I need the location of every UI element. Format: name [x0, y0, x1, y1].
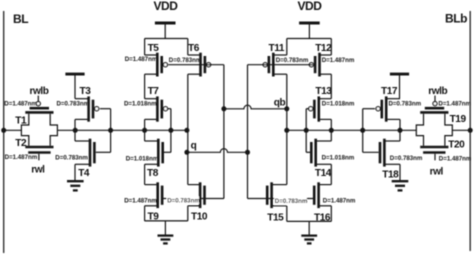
wire transmission-gate body right: [416, 114, 452, 146]
transistor T2 pass NMOS: [25, 147, 53, 153]
transistor T16 NMOS: [314, 182, 331, 208]
svg-text:rwl: rwl: [430, 166, 444, 177]
svg-text:T19: T19: [450, 114, 467, 125]
svg-text:D=1.487nm: D=1.487nm: [4, 101, 37, 108]
wire T14-T16 series link: [330, 164, 332, 184]
wire T3 drain column: [74, 119, 76, 141]
svg-text:BL: BL: [13, 12, 28, 26]
wire T3 gate: [100, 108, 111, 110]
svg-text:D=1.018nm: D=1.018nm: [126, 156, 159, 163]
wire T10 source to ground rail: [187, 206, 189, 221]
value D label T10: [167, 197, 200, 204]
wire T17 drain column: [399, 119, 401, 141]
power VDD bar above T17: [390, 74, 409, 99]
transistor T17 PMOS: [376, 96, 400, 121]
svg-text:T3: T3: [80, 86, 92, 97]
wire left cell input line: [223, 65, 225, 199]
wire T18 source to ground: [399, 164, 401, 180]
wire T6 drain column: [187, 74, 189, 130]
wire T13 drain to bus: [330, 119, 332, 130]
svg-text:T10: T10: [191, 211, 208, 222]
node junction T17-T18 gates: [360, 128, 365, 133]
node junction qb column: [284, 128, 289, 133]
wire node q column: [187, 130, 189, 184]
svg-text:T8: T8: [147, 168, 159, 179]
svg-text:qb: qb: [274, 98, 286, 109]
svg-text:T14: T14: [315, 168, 332, 179]
node junction T3-T4 drains: [73, 128, 78, 133]
ground below T15 T16: [301, 236, 317, 244]
ground below T9 T10: [158, 236, 174, 244]
svg-text:D=0.783nm: D=0.783nm: [276, 57, 309, 64]
node junction BL: [1, 128, 6, 133]
wire node qb column: [286, 109, 288, 185]
svg-text:D=0.783nm: D=0.783nm: [389, 101, 422, 108]
svg-text:T2: T2: [15, 138, 27, 149]
wire VDD left rail: [145, 39, 188, 56]
transistor T1 gate stub rwlb: [37, 96, 39, 102]
transistor T7 PMOS: [145, 96, 168, 121]
svg-text:T15: T15: [267, 213, 284, 224]
svg-text:D=1.018nm: D=1.018nm: [322, 154, 355, 161]
wire T15 source to ground rail: [286, 206, 288, 222]
wire T11 drain column: [286, 74, 288, 109]
wire T15 T16 gate line: [248, 198, 315, 200]
wire T13 T14 gate column: [305, 109, 307, 153]
wire T16 source to ground rail: [330, 206, 332, 222]
wire T3 T4 gate column: [110, 109, 112, 153]
svg-text:T7: T7: [148, 86, 160, 97]
svg-text:T18: T18: [382, 170, 399, 181]
wire T9 T10 gate line: [163, 198, 224, 200]
wire node q bus: [4, 129, 187, 131]
transistor T20 gate stub rwl: [434, 154, 436, 161]
wire BL bit line: [3, 11, 5, 253]
wire T17 gate: [363, 108, 375, 110]
svg-text:D=0.783nm: D=0.783nm: [275, 198, 308, 205]
svg-text:T13: T13: [315, 86, 332, 97]
svg-text:q: q: [191, 141, 197, 152]
svg-text:D=1.487nm: D=1.487nm: [5, 154, 38, 161]
node qb junction: [284, 106, 289, 111]
wire ground rail left cell: [145, 221, 188, 235]
wire T17 T18 gate column: [362, 109, 364, 153]
wire T8 drain to node q bus: [144, 130, 146, 141]
node junction T17-T18 drains: [398, 128, 403, 133]
svg-text:T17: T17: [381, 86, 398, 97]
transistor T1 gate bubble: [36, 102, 40, 106]
svg-text:D=1.018nm: D=1.018nm: [322, 101, 355, 108]
svg-text:T20: T20: [448, 140, 465, 151]
power VDD bar above T3: [65, 74, 84, 99]
wire T8 gate: [164, 151, 171, 153]
wire transmission-gate body left: [21, 114, 57, 146]
transistor T18 NMOS: [380, 139, 400, 167]
wire qb to left cell input: [224, 105, 287, 109]
transistor T14 NMOS: [311, 139, 331, 167]
node q on right input line: [245, 150, 250, 155]
transistor T4 NMOS: [75, 139, 94, 167]
svg-text:D=0.783nm: D=0.783nm: [55, 154, 88, 161]
svg-text:D=1.487nm: D=1.487nm: [125, 56, 158, 63]
svg-text:VDD: VDD: [154, 0, 179, 13]
svg-text:rwl: rwl: [31, 165, 45, 176]
power VDD rail left: [155, 23, 176, 39]
wire node qb bus: [287, 129, 470, 131]
svg-text:D=1.487nm: D=1.487nm: [438, 101, 471, 108]
svg-text:D=0.783nm: D=0.783nm: [169, 57, 202, 64]
transistor T11 PMOS: [263, 53, 287, 77]
svg-text:T12: T12: [315, 43, 332, 54]
value D label T15: [274, 197, 307, 204]
wire T5-T7 series link: [144, 74, 146, 99]
svg-text:D=1.487nm: D=1.487nm: [439, 156, 472, 163]
wire T18 gate: [363, 151, 379, 153]
svg-text:T1: T1: [15, 115, 27, 126]
transistor T6 PMOS: [188, 53, 211, 77]
svg-text:D=1.487nm: D=1.487nm: [124, 197, 157, 204]
svg-text:T5: T5: [148, 43, 160, 54]
ground below T4: [67, 181, 84, 190]
svg-text:BLb: BLb: [445, 11, 467, 25]
node junction T7-T8 gates: [168, 128, 173, 133]
wire T5 T6 gate line: [168, 64, 224, 66]
transistor T9 NMOS: [145, 182, 163, 208]
svg-text:D=0.783nm: D=0.783nm: [390, 155, 423, 162]
svg-text:T4: T4: [78, 168, 90, 179]
wire T4 source to ground: [74, 164, 76, 180]
transistor T19 pass PMOS: [420, 108, 448, 112]
wire BLb bit line: [469, 11, 471, 251]
wire T7 gate: [168, 108, 171, 110]
svg-text:T6: T6: [188, 43, 200, 54]
transistor T19 gate bubble: [433, 102, 437, 106]
wire T7 T8 gate column: [170, 109, 172, 153]
transistor T1 pass PMOS: [25, 108, 53, 112]
wire VDD right rail: [287, 39, 332, 56]
svg-text:rwlb: rwlb: [428, 86, 447, 97]
wire right cell input line: [247, 65, 249, 199]
transistor T2 gate stub rwl: [38, 154, 40, 161]
wire T7 drain to node q bus: [144, 119, 146, 130]
node junction T3-T4 gates: [108, 128, 113, 133]
node qb on left input line: [221, 106, 226, 111]
wire T4 gate: [96, 151, 111, 153]
wire T14 gate: [306, 151, 310, 153]
svg-text:D=0.783nm: D=0.783nm: [167, 197, 200, 204]
transistor T13 PMOS: [309, 96, 332, 121]
svg-text:D=1.018nm: D=1.018nm: [124, 101, 157, 108]
transistor T19 gate stub rwlb: [434, 96, 436, 102]
transistor T5 PMOS: [145, 53, 168, 77]
power VDD rail right: [299, 23, 320, 39]
wire T12-T13 series link: [330, 74, 332, 99]
transistor T12 PMOS: [309, 53, 331, 77]
transistor T15 NMOS: [267, 182, 287, 208]
node q junction: [184, 150, 189, 155]
node junction T6 drain: [184, 128, 189, 133]
wire ground rail right cell: [287, 221, 332, 235]
ground below T18: [392, 181, 409, 190]
svg-text:T11: T11: [269, 43, 285, 54]
transistor T8 NMOS: [145, 139, 163, 167]
transistor T20 pass NMOS: [420, 147, 448, 153]
wire T8-T9 series link: [144, 164, 146, 184]
svg-text:VDD: VDD: [298, 0, 323, 13]
node junction T13-T14 gates: [304, 128, 309, 133]
svg-text:D=1.487nm: D=1.487nm: [322, 57, 355, 64]
node junction T7-T8 drains: [142, 128, 147, 133]
wire q to right cell input: [187, 149, 248, 153]
wire T14 drain to bus: [330, 130, 332, 141]
wire T13 gate: [306, 108, 309, 110]
wire T11 T12 gate line: [248, 64, 313, 66]
svg-text:rwlb: rwlb: [30, 86, 49, 97]
transistor T10 NMOS: [188, 182, 205, 208]
wire T9 source to ground rail: [144, 206, 146, 221]
svg-text:D=1.487nm: D=1.487nm: [323, 198, 356, 205]
node junction BLb: [468, 128, 473, 133]
svg-text:D=0.783nm: D=0.783nm: [57, 101, 90, 108]
node junction T13-T14 drains: [329, 128, 334, 133]
transistor T3 PMOS: [75, 96, 99, 121]
